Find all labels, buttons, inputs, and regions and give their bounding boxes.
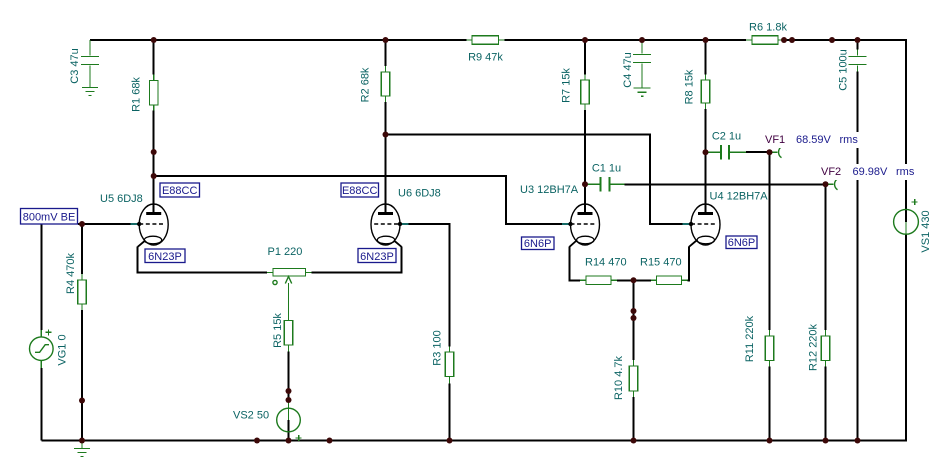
svg-text:C5 100u: C5 100u (838, 49, 850, 91)
svg-text:C2 1u: C2 1u (712, 131, 741, 143)
svg-text:6N6P: 6N6P (728, 237, 756, 249)
svg-text:VS1 430: VS1 430 (920, 210, 932, 252)
svg-text:R12 220k: R12 220k (808, 323, 820, 371)
svg-text:VG1 0: VG1 0 (57, 334, 69, 365)
svg-text:69.98V: 69.98V (853, 166, 889, 178)
svg-text:R7 15k: R7 15k (561, 68, 573, 103)
svg-text:U6 6DJ8: U6 6DJ8 (398, 188, 441, 200)
svg-text:68.59V: 68.59V (796, 134, 832, 146)
svg-text:P1 220: P1 220 (268, 246, 303, 258)
svg-text:C4 47u: C4 47u (622, 52, 634, 87)
svg-text:R3 100: R3 100 (432, 330, 444, 365)
svg-text:R14 470: R14 470 (585, 257, 627, 269)
svg-text:R10 4.7k: R10 4.7k (613, 355, 625, 400)
svg-text:6N6P: 6N6P (524, 238, 552, 250)
svg-text:VF1: VF1 (765, 134, 785, 146)
svg-text:VF2: VF2 (821, 166, 841, 178)
svg-text:U4 12BH7A: U4 12BH7A (710, 191, 769, 203)
svg-text:6N23P: 6N23P (360, 251, 394, 263)
svg-text:C3 47u: C3 47u (69, 48, 81, 83)
svg-text:R8 15k: R8 15k (684, 69, 696, 104)
svg-text:R2 68k: R2 68k (360, 67, 372, 102)
svg-text:R4 470k: R4 470k (65, 253, 77, 294)
svg-text:C1 1u: C1 1u (592, 163, 621, 175)
svg-text:rms: rms (896, 166, 915, 178)
svg-text:R1 68k: R1 68k (131, 77, 143, 112)
svg-text:E88CC: E88CC (342, 185, 378, 197)
svg-text:VS2 50: VS2 50 (233, 410, 269, 422)
svg-text:R9 47k: R9 47k (468, 52, 503, 64)
svg-text:6N23P: 6N23P (148, 251, 182, 263)
svg-text:R5 15k: R5 15k (272, 313, 284, 348)
svg-text:U5 6DJ8: U5 6DJ8 (100, 193, 143, 205)
svg-text:E88CC: E88CC (162, 185, 198, 197)
svg-text:800mV BE: 800mV BE (23, 212, 76, 224)
svg-text:R6 1.8k: R6 1.8k (749, 22, 787, 34)
svg-text:rms: rms (840, 134, 859, 146)
svg-text:R11 220k: R11 220k (744, 315, 756, 362)
svg-text:U3 12BH7A: U3 12BH7A (520, 184, 579, 196)
svg-text:R15 470: R15 470 (640, 257, 682, 269)
